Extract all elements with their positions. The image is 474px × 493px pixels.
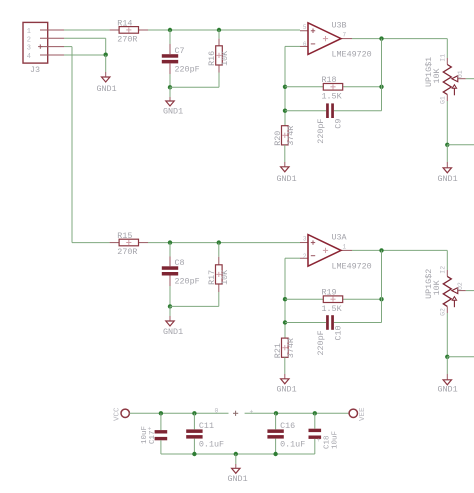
svg-text:1: 1 xyxy=(27,28,31,36)
svg-text:2: 2 xyxy=(303,253,307,260)
svg-text:R19: R19 xyxy=(322,288,337,298)
svg-text:220pF: 220pF xyxy=(316,330,326,355)
svg-text:LME49720: LME49720 xyxy=(332,261,372,271)
svg-text:GND1: GND1 xyxy=(228,474,248,484)
svg-text:GND1: GND1 xyxy=(277,174,297,184)
svg-text:10K: 10K xyxy=(220,50,230,66)
svg-text:GND1: GND1 xyxy=(277,385,297,395)
svg-text:3: 3 xyxy=(303,236,307,243)
svg-text:10uF: 10uF xyxy=(332,431,340,449)
svg-text:+: + xyxy=(317,437,321,444)
svg-text:GND1: GND1 xyxy=(163,327,183,337)
svg-text:3: 3 xyxy=(27,45,31,53)
svg-text:GND1: GND1 xyxy=(97,84,117,94)
svg-text:R17: R17 xyxy=(207,270,217,285)
svg-text:C16: C16 xyxy=(280,421,295,431)
svg-text:U3B: U3B xyxy=(332,21,347,31)
svg-text:C7: C7 xyxy=(175,46,185,56)
svg-text:C11: C11 xyxy=(199,421,214,431)
svg-text:7: 7 xyxy=(343,32,347,39)
svg-text:R20: R20 xyxy=(273,131,283,146)
svg-text:1.5K: 1.5K xyxy=(322,91,343,101)
svg-text:1.5K: 1.5K xyxy=(322,304,343,314)
svg-text:I1: I1 xyxy=(439,54,446,62)
svg-text:6: 6 xyxy=(303,41,307,48)
svg-text:R16: R16 xyxy=(207,51,217,66)
svg-text:C10: C10 xyxy=(334,325,344,340)
svg-text:R21: R21 xyxy=(273,343,283,358)
svg-text:C18: C18 xyxy=(324,435,332,449)
svg-text:GND1: GND1 xyxy=(438,385,458,395)
svg-text:10K: 10K xyxy=(432,279,442,295)
svg-text:0.1uF: 0.1uF xyxy=(199,440,224,450)
svg-text:270R: 270R xyxy=(117,247,137,257)
svg-text:C9: C9 xyxy=(334,119,344,129)
svg-text:GND1: GND1 xyxy=(438,174,458,184)
svg-text:I2: I2 xyxy=(439,266,446,274)
svg-text:VCC: VCC xyxy=(113,407,121,421)
svg-text:220pF: 220pF xyxy=(175,277,200,287)
svg-text:GND1: GND1 xyxy=(163,107,183,117)
svg-text:+: + xyxy=(250,409,254,416)
svg-text:C17: C17 xyxy=(149,430,157,444)
svg-text:220pF: 220pF xyxy=(316,119,326,144)
svg-text:0: 0 xyxy=(215,407,219,414)
svg-text:R14: R14 xyxy=(117,18,132,28)
svg-text:R15: R15 xyxy=(117,231,132,241)
svg-text:0.1uF: 0.1uF xyxy=(280,440,305,450)
svg-text:O2: O2 xyxy=(457,282,464,290)
svg-text:270R: 270R xyxy=(117,35,137,45)
svg-text:10K: 10K xyxy=(220,269,230,285)
svg-text:+: + xyxy=(148,426,152,433)
svg-text:VEE: VEE xyxy=(359,407,367,421)
svg-text:J3: J3 xyxy=(30,65,40,75)
svg-text:O1: O1 xyxy=(457,70,464,78)
svg-text:U3A: U3A xyxy=(332,232,348,242)
svg-text:374R: 374R xyxy=(286,338,296,358)
svg-text:374R: 374R xyxy=(286,126,296,146)
svg-text:4: 4 xyxy=(27,53,31,61)
svg-text:LME49720: LME49720 xyxy=(332,50,372,60)
svg-text:G2: G2 xyxy=(439,308,446,316)
svg-text:R18: R18 xyxy=(322,75,337,85)
svg-text:5: 5 xyxy=(303,24,307,31)
svg-text:1: 1 xyxy=(343,243,347,250)
svg-text:10K: 10K xyxy=(432,67,442,83)
svg-text:220pF: 220pF xyxy=(175,65,200,75)
svg-text:2: 2 xyxy=(27,36,31,44)
svg-text:C8: C8 xyxy=(175,258,185,268)
svg-text:G1: G1 xyxy=(439,96,446,104)
